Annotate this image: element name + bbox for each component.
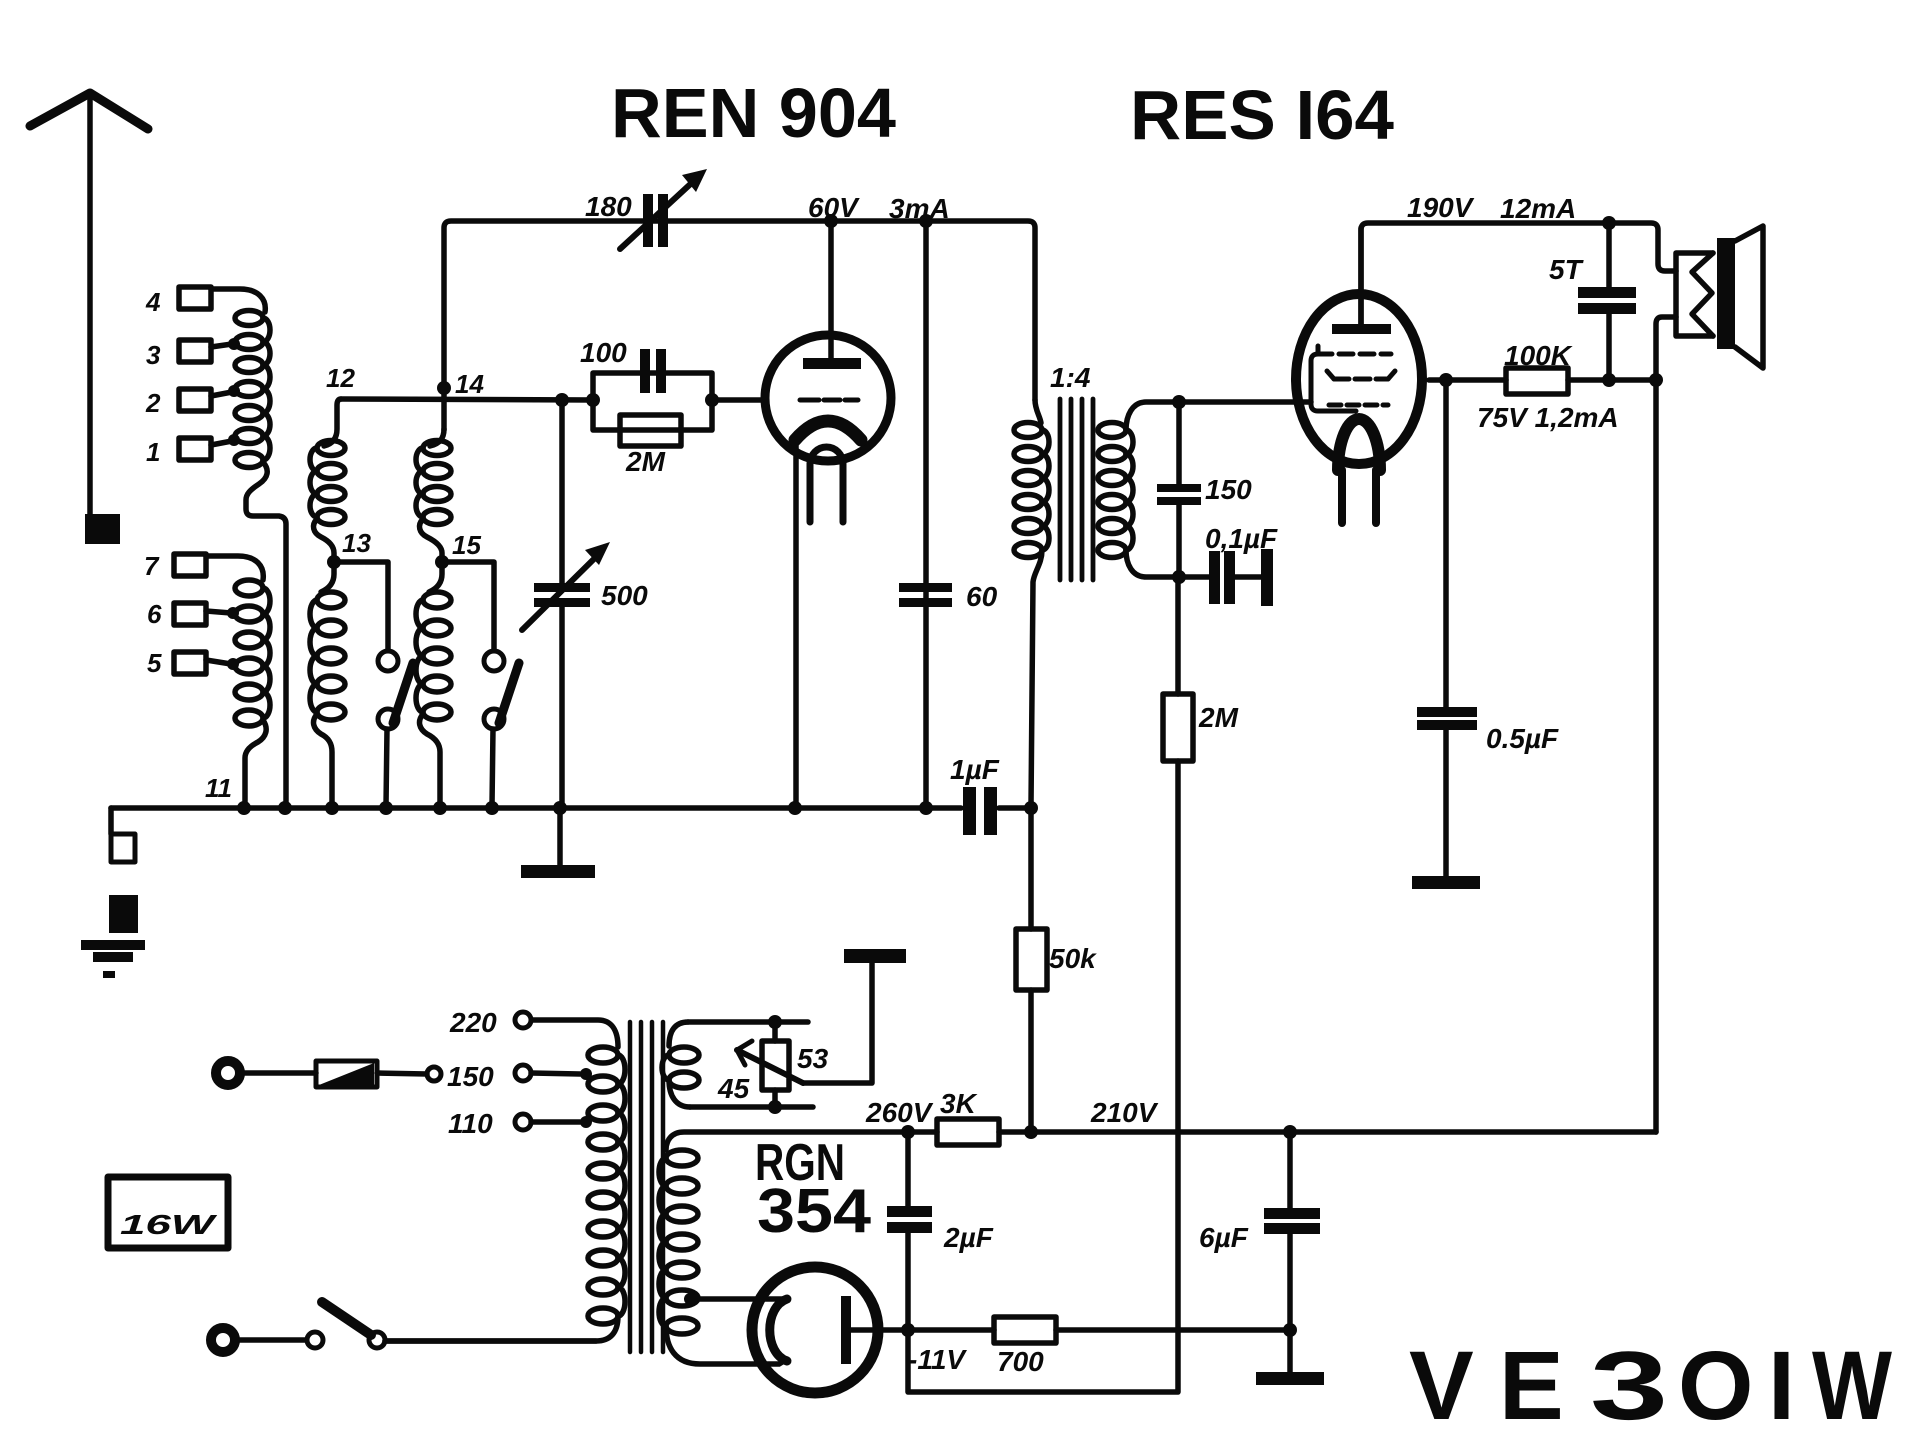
loudspeaker armature box bbox=[1676, 253, 1713, 336]
primary tap 150 bbox=[580, 1068, 592, 1080]
wire coil14 to node 15 bbox=[420, 519, 442, 562]
triode REN904 bbox=[765, 335, 891, 461]
antenna coil L1 terminal 2 bbox=[179, 389, 211, 411]
terminal 110 bbox=[515, 1114, 531, 1130]
wire S2 to chassis bus bbox=[492, 729, 493, 806]
svg-text:60V: 60V bbox=[808, 192, 860, 223]
node -11V bbox=[901, 1323, 915, 1337]
interstage transformer secondary winding bbox=[1098, 423, 1126, 438]
svg-text:75V 1,2mA: 75V 1,2mA bbox=[1477, 402, 1619, 433]
grid RC network node right bbox=[705, 393, 719, 407]
svg-text:5T: 5T bbox=[1549, 254, 1585, 285]
svg-text:180: 180 bbox=[585, 191, 632, 222]
capacitor 1µF in bus bbox=[963, 787, 976, 835]
wire plate bus to REN904 anode bbox=[828, 221, 834, 358]
resistor 700 bbox=[908, 1327, 994, 1333]
svg-text:150: 150 bbox=[1205, 474, 1252, 505]
capacitor 5T bbox=[1606, 223, 1612, 287]
grid wire from coil 12 to grid network bbox=[341, 399, 593, 400]
coil 13 winding bbox=[321, 562, 334, 592]
switch S2 bbox=[484, 651, 504, 671]
power transformer core bbox=[630, 1022, 663, 1352]
capacitor 0,1µF to chassis bbox=[1209, 551, 1220, 604]
svg-text:12: 12 bbox=[326, 363, 355, 393]
coil 14 winding bbox=[430, 429, 444, 446]
node secondary bottom bbox=[1172, 570, 1186, 584]
node 6µF bottom bbox=[1283, 1323, 1297, 1337]
svg-text:50k: 50k bbox=[1049, 943, 1097, 974]
RGN354 anode lead bbox=[851, 1327, 908, 1333]
REN904 anode bbox=[803, 358, 861, 369]
node 50k bottom bbox=[1024, 1125, 1038, 1139]
chassis bus wire bbox=[111, 805, 1031, 811]
grid network loop wires bbox=[593, 373, 712, 430]
wire switch to transformer bbox=[385, 1338, 596, 1344]
node 6µF top bbox=[1283, 1125, 1297, 1139]
wire secondary bottom bbox=[1126, 550, 1209, 577]
capacitor 2µF bbox=[905, 1132, 911, 1206]
svg-text:60: 60 bbox=[966, 581, 998, 612]
svg-text:14: 14 bbox=[455, 369, 484, 399]
svg-text:6: 6 bbox=[147, 599, 162, 629]
resistor 3K bbox=[937, 1119, 999, 1145]
antenna bbox=[30, 93, 148, 129]
wire node13 to switch S1 bbox=[334, 562, 388, 650]
HV winding tap to filament bbox=[684, 1293, 696, 1305]
REN904 grid (dashed) bbox=[800, 398, 858, 403]
terminal 220 bbox=[515, 1012, 531, 1028]
wire 2M to -11V rail bbox=[908, 761, 1178, 1392]
chassis ground below C500 bbox=[557, 808, 563, 865]
RGN354 filament bbox=[770, 1299, 787, 1361]
RES164 anode lead bbox=[1358, 228, 1364, 324]
antenna coil L2 terminal 6 bbox=[174, 603, 206, 625]
svg-text:13: 13 bbox=[342, 528, 371, 558]
svg-text:2: 2 bbox=[145, 388, 161, 418]
interstage transformer 1:4 primary winding bbox=[1014, 423, 1042, 438]
node screen bbox=[1439, 373, 1453, 387]
fuse holder terminal bbox=[216, 1061, 240, 1085]
pentode RES164 bbox=[1296, 294, 1422, 464]
wire S1 to chassis bus bbox=[386, 729, 387, 806]
svg-text:7: 7 bbox=[144, 551, 160, 581]
antenna coil L1 terminal 4 bbox=[179, 287, 211, 309]
wire filament winding bottom bbox=[690, 1104, 813, 1110]
svg-text:2M: 2M bbox=[625, 446, 666, 477]
grid capacitor 100 bbox=[640, 349, 650, 393]
svg-text:12mA: 12mA bbox=[1500, 193, 1576, 224]
antenna coil L1 terminal 1 bbox=[179, 438, 211, 460]
node 15 bbox=[435, 555, 449, 569]
node secondary top bbox=[1172, 395, 1186, 409]
wire top bus left corner down through node 14 to coil 14 bbox=[444, 221, 1035, 430]
svg-text:45: 45 bbox=[717, 1073, 750, 1104]
svg-text:16W: 16W bbox=[120, 1209, 218, 1240]
svg-text:100K: 100K bbox=[1504, 340, 1573, 371]
RGN354 anode bbox=[841, 1296, 851, 1364]
svg-text:190V: 190V bbox=[1407, 192, 1475, 223]
antenna coil L1 terminal 3 bbox=[179, 340, 211, 362]
primary tap 110 bbox=[580, 1116, 592, 1128]
wire speaker lower lead down to 210V rail bbox=[1656, 317, 1676, 1132]
terminal 150 bbox=[515, 1065, 531, 1081]
antenna coil L2 terminal 5 bbox=[174, 652, 206, 674]
svg-text:11: 11 bbox=[205, 773, 232, 803]
capacitor 0,5µF to chassis bbox=[1443, 380, 1449, 707]
interstage transformer core bbox=[1060, 399, 1093, 580]
antenna coil L2 winding bbox=[235, 580, 263, 596]
capacitor 150 bbox=[1176, 402, 1182, 484]
svg-text:110: 110 bbox=[448, 1108, 493, 1139]
svg-text:5: 5 bbox=[147, 648, 162, 678]
feedback capacitor 180 (variable) bbox=[643, 194, 653, 247]
wire coil13 bottom to chassis bus bbox=[314, 714, 332, 806]
grid leak resistor 2M of RES164 bbox=[1175, 577, 1181, 694]
loudspeaker cone bbox=[1735, 226, 1763, 368]
210V rail bbox=[999, 1129, 1656, 1135]
grid RC network node left bbox=[586, 393, 600, 407]
HV secondary winding bbox=[666, 1132, 908, 1150]
svg-text:53: 53 bbox=[797, 1043, 829, 1074]
16W rating box bbox=[108, 1177, 228, 1248]
coil 12 winding bbox=[317, 441, 345, 456]
wire node15 to switch S2 bbox=[442, 562, 494, 650]
capacitor 6µF bbox=[1287, 1132, 1293, 1208]
wire coil12 to node 13 bbox=[314, 519, 334, 562]
wire filament winding top bbox=[688, 1019, 808, 1025]
RES164 filament dome bbox=[1338, 419, 1380, 470]
tuning capacitor 500 bbox=[534, 583, 590, 592]
bus junction nodes bbox=[237, 801, 251, 815]
earth ground bars bbox=[81, 940, 145, 950]
resistor 100K bbox=[1506, 368, 1568, 394]
RES164 screen grid bbox=[1327, 371, 1395, 379]
node 3mA on plate bus bbox=[919, 214, 933, 228]
svg-text:1: 1 bbox=[146, 437, 160, 467]
svg-text:1:4: 1:4 bbox=[1050, 362, 1091, 393]
svg-text:700: 700 bbox=[997, 1346, 1044, 1377]
svg-text:100: 100 bbox=[580, 337, 627, 368]
node at 5T capacitor bbox=[1602, 216, 1616, 230]
antenna terminal block bbox=[85, 514, 120, 544]
RES164 anode bbox=[1332, 324, 1391, 334]
wire 190V plate supply bbox=[1361, 223, 1676, 324]
earth electrode block bbox=[109, 895, 138, 933]
svg-text:VE3OIW: VE3OIW bbox=[1409, 1331, 1892, 1440]
resistor 50k bbox=[1028, 808, 1034, 929]
svg-text:3mA: 3mA bbox=[889, 193, 950, 224]
node 14 bbox=[437, 381, 451, 395]
node 13 bbox=[327, 555, 341, 569]
svg-text:3: 3 bbox=[146, 340, 161, 370]
node speaker return bbox=[1649, 373, 1663, 387]
switch S1 bbox=[378, 651, 398, 671]
svg-text:220: 220 bbox=[449, 1007, 497, 1038]
RES164 filament legs bbox=[1342, 470, 1376, 523]
svg-text:RES I64: RES I64 bbox=[1130, 76, 1394, 154]
antenna coil L1 winding bbox=[235, 311, 263, 326]
node at tuning capacitor branch bbox=[555, 393, 569, 407]
svg-text:260V: 260V bbox=[865, 1097, 934, 1128]
svg-text:500: 500 bbox=[601, 580, 648, 611]
wire coil15 bottom to chassis bus bbox=[420, 714, 440, 806]
REN904 heater bbox=[810, 447, 843, 464]
node 260V bbox=[901, 1125, 915, 1139]
antenna coil L2 terminal 7 bbox=[174, 554, 206, 576]
wire primary bottom to bus node bbox=[1031, 550, 1042, 806]
svg-text:354: 354 bbox=[757, 1177, 872, 1246]
mains switch terminal bbox=[211, 1328, 235, 1352]
svg-text:-11V: -11V bbox=[908, 1344, 967, 1375]
grid resistor 2M bbox=[620, 415, 681, 446]
RES164 lower grid (dashed) bbox=[1329, 403, 1388, 408]
svg-text:0,1µF: 0,1µF bbox=[1205, 523, 1278, 554]
wire through capacitor 60 to chassis bus bbox=[923, 221, 929, 806]
svg-text:15: 15 bbox=[452, 530, 481, 560]
wire 6µF to chassis bbox=[1287, 1330, 1293, 1372]
svg-text:2µF: 2µF bbox=[943, 1222, 994, 1253]
wire RC network to REN904 grid bbox=[712, 397, 766, 403]
wire wiper to chassis bar bbox=[803, 963, 872, 1083]
wire L2 bottom to chassis bus bbox=[245, 720, 266, 806]
fuse bbox=[240, 1070, 316, 1076]
capacitor 60 bbox=[899, 583, 952, 592]
svg-text:2M: 2M bbox=[1198, 702, 1239, 733]
tuning capacitor 500 branch wire bbox=[559, 400, 565, 583]
svg-text:3K: 3K bbox=[940, 1088, 978, 1119]
svg-text:150: 150 bbox=[447, 1061, 494, 1092]
svg-text:210V: 210V bbox=[1090, 1097, 1159, 1128]
REN904 cathode lead to chassis bus bbox=[793, 442, 799, 806]
loudspeaker magnet bar bbox=[1717, 238, 1735, 349]
node bus right end bbox=[1024, 801, 1038, 815]
wire secondary top to RES164 grid bbox=[1126, 402, 1311, 430]
svg-text:4: 4 bbox=[145, 287, 161, 317]
svg-text:6µF: 6µF bbox=[1199, 1222, 1249, 1253]
wire RES164 screen to 100K bbox=[1429, 377, 1506, 383]
svg-text:1µF: 1µF bbox=[950, 754, 1000, 785]
rheostat 53 with wiper 45 bbox=[772, 1022, 778, 1041]
wire 100K to speaker node bbox=[1568, 377, 1656, 383]
rectifier RGN354 bbox=[752, 1267, 878, 1393]
node 60V on plate bus bbox=[824, 214, 838, 228]
coil 15 winding bbox=[429, 562, 442, 592]
wire L1 bottom to chassis bus bbox=[246, 462, 286, 806]
mains switch bbox=[235, 1337, 306, 1343]
svg-text:0.5µF: 0.5µF bbox=[1486, 723, 1559, 754]
power transformer primary winding bbox=[533, 1020, 618, 1047]
REN904 cathode bbox=[795, 421, 861, 440]
bus left end earth terminal bbox=[108, 808, 114, 834]
filament winding 4V bbox=[669, 1022, 688, 1046]
RES164 control grid (dashed) with support bbox=[1316, 346, 1321, 354]
svg-text:REN 904: REN 904 bbox=[611, 74, 896, 152]
